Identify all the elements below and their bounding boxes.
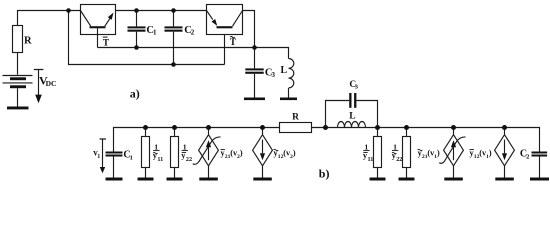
svg-text:11: 11 xyxy=(157,156,163,163)
svg-text:1: 1 xyxy=(154,142,158,151)
svg-text:1: 1 xyxy=(153,29,157,37)
svg-text:a): a) xyxy=(130,87,140,101)
svg-text:2: 2 xyxy=(526,153,529,160)
svg-text:22: 22 xyxy=(396,156,402,163)
svg-text:): ) xyxy=(240,149,243,158)
svg-text:1: 1 xyxy=(97,154,100,160)
svg-text:T: T xyxy=(230,38,237,48)
svg-text:): ) xyxy=(489,149,492,158)
svg-text:1: 1 xyxy=(393,142,397,151)
svg-text:L: L xyxy=(349,112,355,122)
svg-text:1: 1 xyxy=(364,142,368,151)
svg-text:): ) xyxy=(293,149,296,158)
svg-text:): ) xyxy=(437,149,440,158)
svg-text:3: 3 xyxy=(355,84,359,91)
svg-text:R: R xyxy=(292,113,299,123)
svg-text:L: L xyxy=(281,65,288,76)
svg-text:DC: DC xyxy=(46,79,57,88)
svg-text:11: 11 xyxy=(368,156,374,163)
svg-text:b): b) xyxy=(319,167,330,181)
svg-text:3: 3 xyxy=(272,71,276,79)
svg-text:T: T xyxy=(103,38,110,48)
svg-text:R: R xyxy=(24,35,32,46)
svg-text:22: 22 xyxy=(186,156,192,163)
svg-text:2: 2 xyxy=(191,29,195,37)
svg-text:1: 1 xyxy=(130,155,133,162)
svg-text:1: 1 xyxy=(183,142,187,151)
